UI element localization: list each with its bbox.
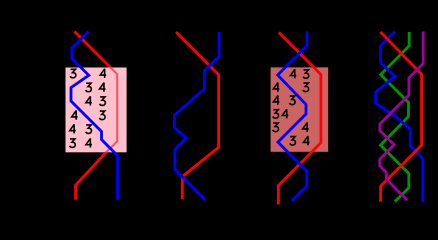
wire purple g4 <box>380 32 424 201</box>
wire green g4 <box>381 32 410 202</box>
wire blue g1 <box>71 32 118 200</box>
numbers box1 row5 <box>70 124 92 133</box>
numbers box3 row4 <box>273 109 288 118</box>
numbers box1 row6 <box>70 138 92 147</box>
wire red g4 <box>380 32 421 202</box>
wire blue g2 <box>175 32 220 200</box>
numbers box3 row1 <box>290 69 308 78</box>
numbers box1 row3 <box>86 96 105 105</box>
wire red g3 <box>278 32 321 204</box>
wire red g1 bottom bright segment <box>76 152 107 200</box>
wire blue g3 <box>278 32 307 202</box>
wire blue g4 <box>376 32 423 202</box>
numbers box1 row2 <box>86 83 106 92</box>
numbers box3 row5 <box>273 122 309 131</box>
highlight box B3 (salmon) <box>271 67 329 151</box>
numbers box1 row1 <box>70 69 106 78</box>
wire red g1 top diagonal (bright, outside box) <box>75 32 111 68</box>
numbers box1 row4 <box>72 110 105 119</box>
wire red g2 <box>176 32 219 199</box>
highlight box B1 (pink) <box>66 68 127 153</box>
numbers box3 row2 <box>273 82 308 91</box>
wire red g1 muted segment under box <box>106 68 117 153</box>
numbers box3 row6 <box>290 136 310 145</box>
numbers box3 row3 <box>273 95 295 104</box>
